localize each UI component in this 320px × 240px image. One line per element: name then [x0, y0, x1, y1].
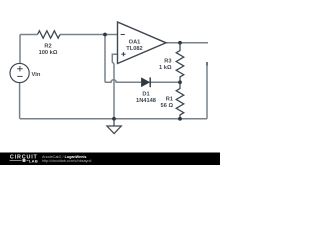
wire top rail — [20, 34, 118, 36]
wire output — [166, 42, 208, 44]
svg-text:D1: D1 — [142, 92, 149, 98]
op-amp OA1 triangle — [118, 22, 167, 64]
node ground junction — [112, 117, 116, 121]
node junction at inverting input — [103, 33, 107, 37]
svg-text:OA1: OA1 — [129, 40, 141, 46]
wire bottom rail — [20, 118, 207, 120]
svg-text:TL082: TL082 — [126, 46, 142, 52]
minus sign inside source — [17, 75, 22, 77]
footer bar — [0, 153, 220, 166]
svg-text:R2: R2 — [44, 43, 51, 49]
diode D1 cathode bar — [149, 77, 151, 87]
wire left bottom — [19, 83, 21, 119]
node bottom R1 junction — [178, 117, 182, 121]
svg-text:56 Ω: 56 Ω — [161, 103, 174, 109]
resistor R1 — [176, 82, 184, 119]
op-amp plus input marker — [121, 52, 125, 56]
node feedback junction — [178, 80, 182, 84]
node output junction — [178, 41, 182, 45]
ground symbol — [107, 119, 121, 134]
svg-text:100 kΩ: 100 kΩ — [39, 50, 58, 56]
logo LAB line — [10, 159, 29, 161]
plus sign inside source — [17, 66, 22, 71]
voltage source V1 circle — [10, 63, 29, 82]
wire feedback vertical — [104, 35, 106, 83]
resistor R3 — [176, 43, 184, 83]
svg-text:1N4148: 1N4148 — [136, 98, 156, 104]
diode D1 — [142, 78, 150, 86]
svg-text:Vin: Vin — [32, 72, 41, 78]
resistor R2 — [38, 31, 61, 38]
svg-text:R1: R1 — [166, 96, 173, 102]
svg-text:1 kΩ: 1 kΩ — [159, 65, 172, 71]
svg-text:http://circuitlab.com/c/hbsayn: http://circuitlab.com/c/hbsayn4 — [42, 159, 92, 163]
logo LAB square — [23, 159, 26, 162]
wire noninverting input — [112, 54, 117, 119]
wire right rail — [206, 65, 208, 119]
wire left rail — [19, 35, 21, 64]
svg-text:LAB: LAB — [29, 158, 38, 163]
op-amp minus input marker — [121, 34, 125, 36]
svg-text:R3: R3 — [164, 58, 171, 64]
wire feedback row with hop over noninverting wire — [105, 80, 180, 83]
